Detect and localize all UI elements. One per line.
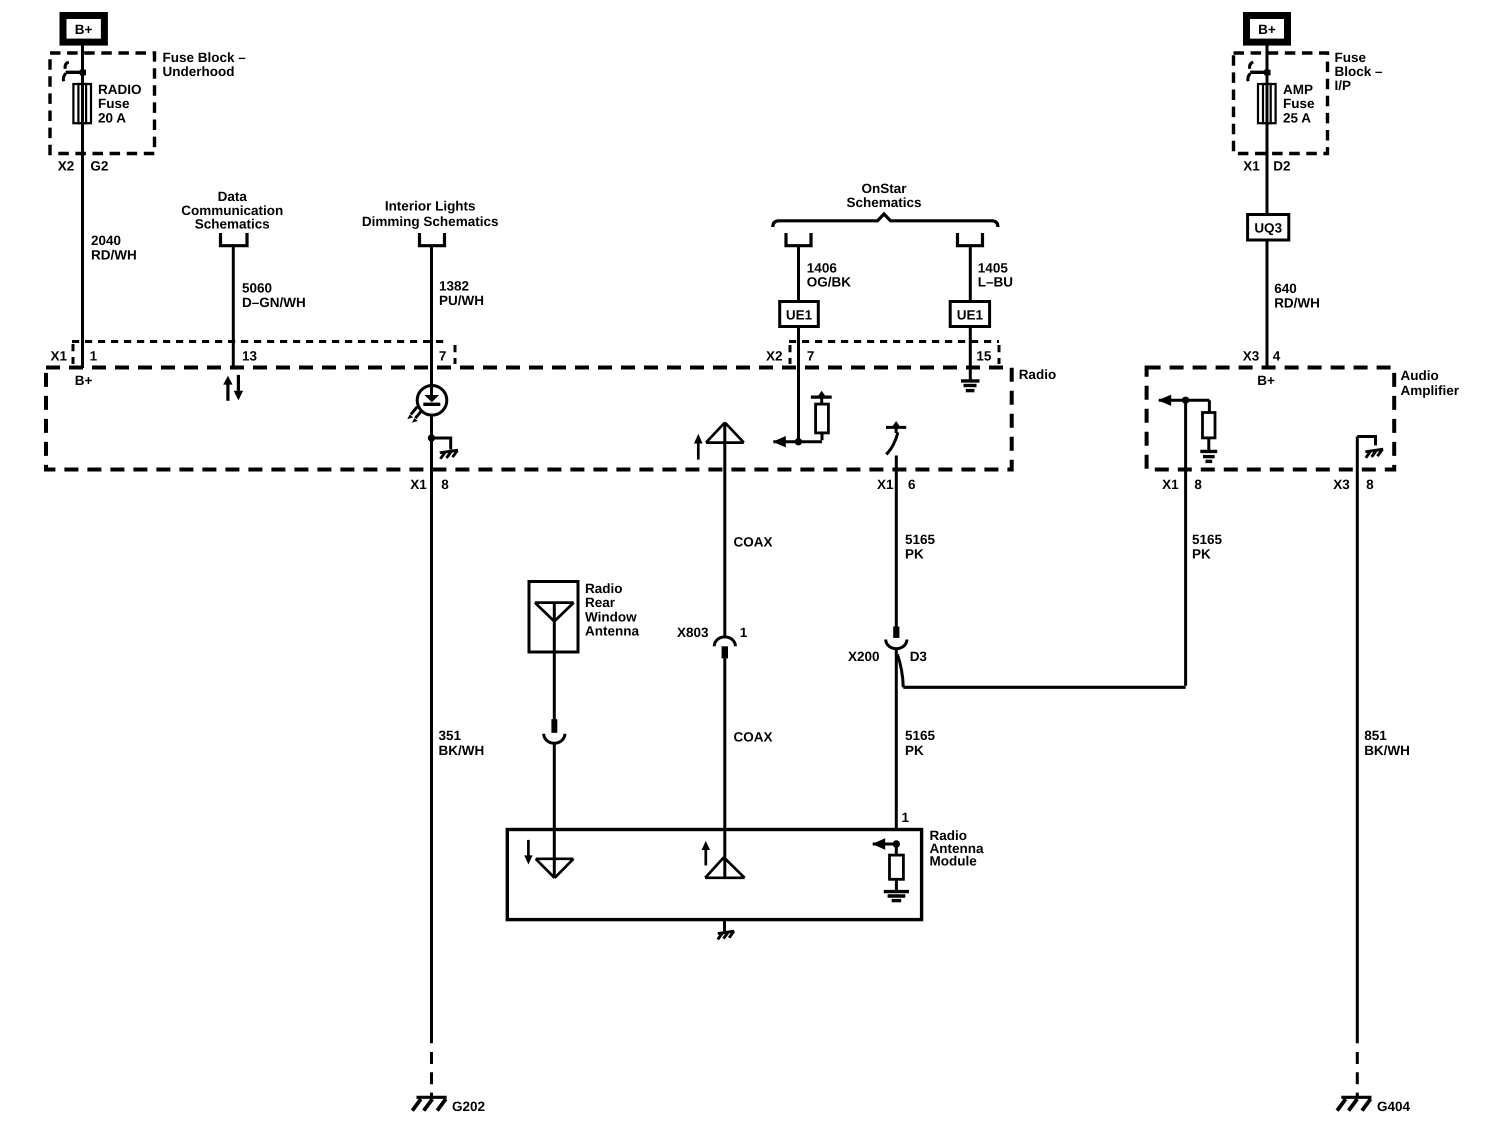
arrow left with junction in radio box [773,436,822,447]
option code box UE1 right [950,302,989,327]
option code box UQ3 [1248,215,1289,241]
wire label 640 RD/WH [1274,281,1320,311]
wire onstar to UE1 left (1406 OG/BK) [797,247,800,302]
inline connector on antenna lead [544,719,565,743]
pin labels X1 8 amplifier left [1162,477,1202,492]
connector labels X1 D2 [1243,159,1290,174]
wire label 1405 L-BU [978,260,1013,289]
internal ground (hatched) in amplifier [1357,437,1383,458]
svg-text:Fuse: Fuse [98,96,130,111]
labels X200 D3 [848,649,927,664]
svg-text:B+: B+ [1258,22,1276,37]
svg-text:RD/WH: RD/WH [1274,296,1320,311]
off-page bracket interior lights [420,233,445,246]
svg-text:8: 8 [441,477,449,492]
radio component dashed box [46,368,1012,470]
svg-text:G202: G202 [452,1099,485,1114]
wire data communication to radio pin 13 (5060 D-GN/WH) [232,247,235,368]
svg-text:7: 7 [807,349,815,364]
wire amplifier pin X1-8 down to X200 branch (5165 PK) [1184,400,1187,685]
svg-text:AMP: AMP [1283,82,1313,97]
wire label 5165 PK right [1192,532,1223,562]
svg-text:G2: G2 [90,159,108,174]
svg-text:5060: 5060 [242,281,272,296]
wire label 2040 RD/WH [91,233,137,263]
svg-text:351: 351 [439,728,462,743]
svg-text:UQ3: UQ3 [1254,221,1282,236]
svg-text:Radio: Radio [1019,367,1057,382]
svg-text:PK: PK [905,547,924,562]
wire label 5060 D-GN/WH [242,281,306,311]
svg-text:D3: D3 [910,649,928,664]
svg-text:Fuse: Fuse [1335,50,1367,65]
wire amplifier pin X3-8 to G404 (851 BK/WH) [1356,437,1359,1044]
fuse AMP 25 A [1258,84,1276,123]
wire X803 coax to module [723,658,726,829]
arrow left with junction in amplifier [1158,395,1209,406]
svg-text:BK/WH: BK/WH [1364,743,1410,758]
svg-text:X2: X2 [58,159,75,174]
rear window antenna symbol [535,603,574,622]
wire radio pin 6 to X200 (5165 PK) [895,456,898,627]
svg-text:RD/WH: RD/WH [91,248,137,263]
svg-text:1382: 1382 [439,279,469,294]
svg-text:1406: 1406 [807,260,838,275]
svg-text:X2: X2 [766,349,783,364]
wire antenna lead to module [553,743,556,829]
svg-text:X3: X3 [1243,349,1260,364]
fuse block underhood dashed box [50,53,155,154]
svg-text:D–GN/WH: D–GN/WH [242,295,306,310]
svg-text:B+: B+ [1257,373,1275,388]
antenna signal arrow in radio box [694,434,703,460]
label Fuse Block - I/P [1335,50,1384,93]
wire horizontal branch to X200 [903,686,1185,689]
wire UQ3 to amplifier pin 4 (640 RD/WH) [1266,240,1269,368]
label Radio Antenna Module [930,828,984,869]
svg-text:Dimming Schematics: Dimming Schematics [362,214,499,229]
svg-text:15: 15 [976,349,992,364]
wire label 1406 OG/BK [807,260,852,289]
coax antenna symbol in radio box [706,423,744,443]
wire label 1382 PU/WH [439,279,484,309]
connector X1 dotted outline (radio) [72,342,455,365]
svg-text:X1: X1 [51,349,68,364]
wire UE1 right to radio pin 15 ground [969,327,972,380]
ground symbol G404 [1337,1097,1371,1110]
off-page bracket onstar left [786,233,811,246]
svg-text:COAX: COAX [734,730,773,745]
svg-text:Fuse Block –: Fuse Block – [163,50,247,65]
power symbol B+ right [1247,16,1288,43]
svg-text:2040: 2040 [91,233,121,248]
svg-text:Radio: Radio [585,581,623,596]
svg-text:X200: X200 [848,649,880,664]
svg-text:X803: X803 [677,625,709,640]
antenna mast wire [553,603,556,720]
pin labels X1 6 [877,477,916,492]
wire LED to ground junction and radio pin 8 [430,415,433,1043]
svg-text:5165: 5165 [905,532,936,547]
up arrow in module [702,841,710,866]
terminal hook left fuse block [63,62,86,81]
svg-text:UE1: UE1 [957,307,984,322]
svg-text:Schematics: Schematics [846,195,921,210]
terminal hook right fuse block [1248,62,1271,81]
switch to antenna module at pin 6 [886,421,906,454]
audio amplifier dashed box [1147,368,1395,470]
svg-text:5165: 5165 [1192,532,1223,547]
earth ground at pin 15 [961,381,980,391]
svg-text:Interior Lights: Interior Lights [385,199,476,214]
svg-text:640: 640 [1274,281,1297,296]
wire label 5165 PK lower [905,728,936,758]
arrow left with junction at module pin 1 [872,838,900,849]
brace OnStar [773,214,998,227]
off-page bracket onstar right [958,233,983,246]
pin labels X3 4 [1243,349,1281,364]
svg-text:X1: X1 [1162,477,1179,492]
label Fuse Block - Underhood [163,50,247,79]
svg-text:1: 1 [90,349,98,364]
pulldown resistor in amplifier [1203,400,1216,451]
wire label 5165 PK upper [905,532,936,562]
label Radio Rear Window Antenna [585,581,639,639]
earth ground below amplifier resistor [1200,451,1217,461]
connector X803 [714,637,735,658]
power symbol B+ left [63,16,104,43]
wire B+ to UQ3 (AMP fuse feed) [1266,45,1269,215]
label Data Communication Schematics [181,189,283,232]
radio rear window antenna box [529,582,578,653]
svg-text:OG/BK: OG/BK [807,275,852,290]
wire label 851 BK/WH [1364,728,1410,758]
svg-text:4: 4 [1273,349,1281,364]
off-page bracket data communication [221,233,248,246]
pin labels X1 1 13 7 [51,349,447,364]
module coax output antenna symbol [705,830,744,878]
svg-text:COAX: COAX [734,535,773,550]
svg-text:L–BU: L–BU [978,275,1013,290]
svg-text:13: 13 [242,349,258,364]
labels X803 1 [677,625,748,640]
wire diagonal into X200 [897,655,903,688]
dashed wire tail to G404 [1356,1052,1359,1097]
internal ground (hatched) below module box [718,920,734,940]
connector labels X2 G2 [58,159,109,174]
wire coax mast to X803 [723,424,726,638]
svg-text:UE1: UE1 [786,307,813,322]
svg-text:I/P: I/P [1335,78,1352,93]
fuse block I/P dashed box [1234,53,1328,154]
earth ground below module resistor [884,892,909,901]
svg-text:1: 1 [740,625,748,640]
svg-text:Block –: Block – [1335,64,1384,79]
svg-text:25 A: 25 A [1283,110,1311,125]
svg-text:PK: PK [905,743,924,758]
svg-text:Rear: Rear [585,595,616,610]
svg-text:PU/WH: PU/WH [439,293,484,308]
svg-text:RADIO: RADIO [98,82,142,97]
dashed wire tail to G202 [430,1052,433,1097]
wire interior lights to radio pin 7 (1382 PU/WH) [430,247,433,386]
wire X200 to module pin 1 (5165 PK) [895,649,898,830]
svg-text:Audio: Audio [1401,368,1439,383]
label OnStar Schematics [846,181,921,210]
svg-text:X1: X1 [1243,159,1260,174]
module rear antenna input symbol [536,830,574,878]
radio antenna module box [507,830,921,920]
internal ground (hatched) in radio box [432,438,459,459]
svg-text:1405: 1405 [978,260,1009,275]
svg-text:5165: 5165 [905,728,936,743]
svg-text:X1: X1 [877,477,894,492]
down arrow in module [524,840,532,865]
label Interior Lights Dimming Schematics [362,199,499,230]
svg-text:8: 8 [1366,477,1374,492]
svg-text:OnStar: OnStar [861,181,907,196]
svg-text:Communication: Communication [181,203,283,218]
wire UE1 left to radio pin 7 [797,327,800,442]
connector X200 [886,627,907,649]
svg-text:Module: Module [930,854,978,869]
pullup resistor in radio box [811,391,832,440]
svg-text:Fuse: Fuse [1283,96,1315,111]
svg-text:851: 851 [1364,728,1387,743]
label AMP Fuse 25 A [1283,82,1315,125]
svg-text:X3: X3 [1333,477,1350,492]
svg-text:G404: G404 [1377,1099,1411,1114]
svg-text:BK/WH: BK/WH [439,743,485,758]
wire onstar to UE1 right (1405 L-BU) [969,247,972,302]
pin labels X1 8 below radio [410,477,449,492]
label RADIO Fuse 20 A [98,82,142,125]
connector X2 dotted outline (radio onstar side) [789,342,999,365]
svg-text:Schematics: Schematics [195,217,270,232]
wire B+ to radio pin 1 (2040 RD/WH) [81,45,84,368]
svg-text:8: 8 [1194,477,1202,492]
svg-text:B+: B+ [75,373,93,388]
svg-text:D2: D2 [1273,159,1290,174]
svg-text:Window: Window [585,609,637,624]
label Audio Amplifier [1401,368,1460,398]
svg-text:X1: X1 [410,477,427,492]
wire label 351 BK/WH [439,728,485,758]
terminating resistor in module [890,844,904,891]
svg-text:20 A: 20 A [98,110,126,125]
junction dot at LED ground [428,434,435,441]
fuse RADIO 20 A [73,84,91,123]
LED indicator (dimming lamp) [407,386,447,423]
svg-text:Underhood: Underhood [163,64,235,79]
svg-text:Antenna: Antenna [585,624,639,639]
option code box UE1 left [780,302,819,327]
svg-text:B+: B+ [75,22,93,37]
ground symbol G202 [412,1097,446,1110]
svg-text:PK: PK [1192,547,1211,562]
pin labels X3 8 amplifier right [1333,477,1374,492]
pin labels X2 7 15 [766,349,992,364]
svg-text:Amplifier: Amplifier [1401,383,1460,398]
svg-text:1: 1 [902,810,910,825]
svg-text:6: 6 [908,477,916,492]
svg-text:Data: Data [218,189,248,204]
serial data arrows at pin 13 [223,375,243,401]
svg-text:7: 7 [439,349,447,364]
